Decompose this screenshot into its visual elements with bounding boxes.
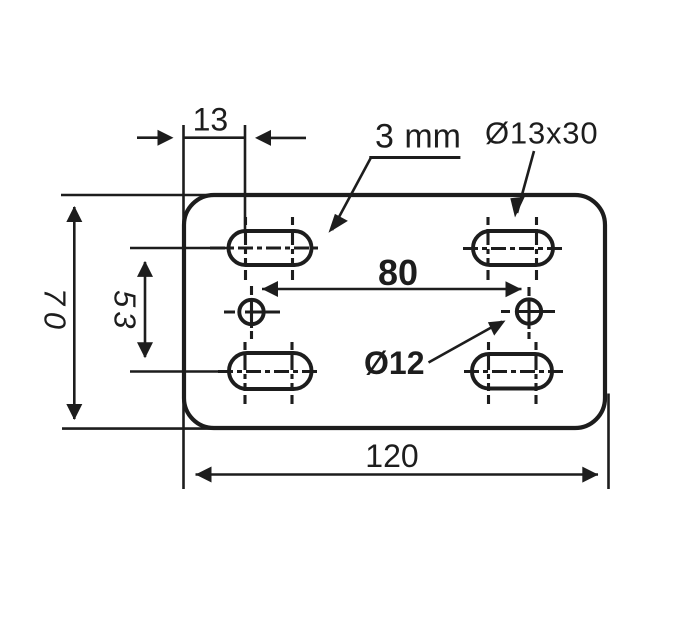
arrowhead 13 right [255, 130, 271, 146]
arrow shaft 13 right [269, 137, 306, 140]
centerline horizontal slot top-left [210, 246, 319, 249]
extension line bottom (plate bottom edge extended) [62, 427, 214, 430]
centerline horizontal slot bottom-left [218, 370, 318, 373]
arrowhead leader 3mm [329, 214, 348, 233]
svg-text:120: 120 [365, 438, 418, 474]
hole left (O12) [239, 300, 263, 324]
leader line 3mm [332, 158, 371, 231]
arrowhead leader O13x30 [510, 197, 525, 218]
centerline vertical slot top-right col B [535, 217, 538, 280]
centerline vertical slot bottom-right col A [487, 342, 490, 404]
centerline horizontal hole right [501, 310, 555, 313]
arrow shaft 13 left [137, 136, 160, 139]
centerline horizontal slot top-right [463, 247, 565, 250]
centerline vertical slot top-left col B [291, 217, 294, 280]
extension line 53 bottom row [130, 370, 218, 373]
slot top-left (13x30 slot) [229, 231, 312, 265]
centerline vertical slot top-right col A [486, 217, 489, 280]
hole right (O12) [517, 299, 541, 323]
leader line O13x30 [517, 151, 534, 213]
underline 3mm [369, 156, 460, 159]
plate outline [184, 195, 605, 428]
centerline vertical hole right [527, 287, 530, 339]
leader line O12 [429, 322, 503, 363]
arrowhead leader O12 [488, 321, 506, 336]
extension line 53 top row [130, 247, 228, 250]
svg-text:3 mm: 3 mm [375, 118, 461, 156]
extension line 13 right [244, 125, 247, 231]
svg-text:80: 80 [378, 252, 418, 293]
centerline vertical slot bottom-right col B [534, 342, 537, 404]
arrowhead 53 bottom [137, 342, 153, 358]
svg-text:53: 53 [107, 290, 142, 332]
slot bottom-left (13x30 slot) [229, 353, 312, 389]
arrowhead 13 left [158, 130, 174, 146]
centerline vertical slot bottom-left col B [290, 342, 293, 404]
arrowhead 80 right [506, 281, 522, 297]
svg-text:70: 70 [37, 288, 72, 335]
dimension line 70 [73, 207, 76, 419]
dimension line 13 [184, 136, 246, 139]
centerline vertical slot bottom-left col A [243, 342, 246, 404]
extension line left vertical (plate edge extended) [182, 125, 185, 489]
svg-text:Ø12: Ø12 [364, 345, 424, 381]
arrowhead 120 left [196, 467, 212, 483]
dimension line 120 [196, 473, 599, 476]
slot top-right (13x30 slot) [473, 231, 553, 265]
arrowhead 53 top [137, 261, 153, 277]
slot bottom-right (13x30 slot) [472, 354, 552, 389]
dimension line 80 [262, 288, 522, 291]
svg-text:Ø13x30: Ø13x30 [485, 116, 598, 151]
dimension line 53 [144, 262, 147, 357]
extension line top (plate top edge extended) [61, 194, 214, 197]
svg-text:13: 13 [193, 102, 229, 138]
centerline horizontal slot bottom-right [464, 370, 566, 373]
arrowhead 80 left [262, 281, 278, 297]
centerline vertical hole left [250, 286, 253, 339]
centerline horizontal hole left [224, 310, 280, 313]
arrowhead 120 right [582, 467, 598, 483]
arrowhead 70 bottom [66, 404, 82, 420]
arrowhead 70 top [66, 206, 82, 222]
centerline vertical slot top-left col A [244, 217, 247, 280]
extension line 120 right [607, 394, 610, 490]
